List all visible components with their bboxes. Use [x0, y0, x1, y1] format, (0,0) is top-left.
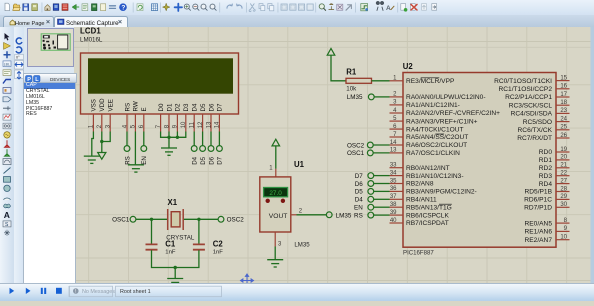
junction C2: [197, 217, 200, 220]
svg-text:RD6/P1C: RD6/P1C: [524, 196, 552, 203]
svg-text:D7: D7: [217, 103, 224, 111]
svg-text:17: 17: [560, 91, 567, 97]
cursor crosshair: [241, 274, 254, 287]
svg-text:D6: D6: [208, 103, 215, 111]
svg-text:D4: D4: [355, 196, 364, 203]
svg-text:RW: RW: [133, 101, 140, 111]
design explorer: [92, 4, 97, 11]
svg-text:RB2/AN8: RB2/AN8: [406, 180, 434, 187]
svg-text:EN: EN: [354, 204, 363, 211]
svg-text:D7: D7: [217, 156, 224, 164]
U2 pin 30 RD7/P1D: [524, 202, 569, 211]
U2 pin 29 RD6/P1C: [524, 194, 569, 203]
wire VEE: [102, 131, 110, 141]
svg-text:RB7/ICSPDAT: RB7/ICSPDAT: [406, 220, 449, 227]
svg-text:D1: D1: [166, 103, 173, 111]
power terminal down: [98, 152, 106, 159]
svg-text:D0: D0: [158, 103, 165, 111]
junction VDD/VEE: [100, 139, 103, 142]
junction D2: [176, 135, 179, 138]
svg-text:12: 12: [198, 120, 204, 127]
svg-text:RE1/AN6: RE1/AN6: [525, 228, 553, 235]
wire E pin: [143, 131, 145, 145]
svg-text:29: 29: [560, 194, 567, 200]
junction bottom rail: [174, 265, 177, 268]
svg-text:U2: U2: [403, 61, 414, 70]
svg-text:RA4/T0CKI/C1OUT: RA4/T0CKI/C1OUT: [406, 126, 464, 133]
U2 pin 33 RB0/AN12/INT: [390, 162, 450, 171]
new design: [5, 3, 10, 11]
status bar: [0, 283, 594, 301]
new sheet: [401, 4, 406, 11]
microcontroller U2: [403, 61, 556, 256]
U2 pin 6 RA4/T0CKI/C1OUT: [390, 123, 464, 132]
svg-text:LM016L: LM016L: [80, 36, 103, 43]
svg-text:D4: D4: [192, 156, 199, 164]
wire OSC1 to crystal: [136, 218, 167, 220]
overline MCLR: [421, 76, 440, 78]
wire rail to ground: [168, 137, 170, 147]
crystal X1: [166, 198, 195, 241]
new page: [101, 4, 106, 11]
schematic canvas: [74, 27, 594, 284]
svg-text:LBL: LBL: [4, 62, 10, 66]
svg-text:D5: D5: [200, 103, 207, 111]
svg-text:33: 33: [390, 162, 397, 168]
junction C1: [150, 217, 153, 220]
terminal OSC2: [218, 216, 224, 222]
svg-text:15: 15: [560, 75, 567, 81]
wire to ground: [174, 267, 176, 278]
ground: [161, 148, 177, 155]
svg-text:E: E: [141, 107, 148, 111]
home: [45, 5, 50, 11]
decompose: [346, 5, 351, 10]
svg-text:1nF: 1nF: [213, 249, 224, 255]
svg-text:RC0/T1OSO/T1CKI: RC0/T1OSO/T1CKI: [494, 77, 552, 84]
wire RS pin: [126, 131, 128, 145]
equals: [110, 6, 116, 9]
U2 pin 4 RA2/AN2/VREF-/CVREF/C2IN+: [390, 107, 501, 116]
terminal EN to U2: [354, 204, 389, 211]
svg-text:X1: X1: [168, 198, 178, 207]
svg-text:LM35: LM35: [294, 241, 310, 248]
svg-text:RC1/T1OSI/CCP2: RC1/T1OSI/CCP2: [499, 86, 553, 93]
U2 pin 36 RB3/AN9/PGM/C12IN2-: [390, 186, 477, 195]
svg-text:RA5/AN4/SS/C2OUT: RA5/AN4/SS/C2OUT: [406, 134, 468, 141]
svg-text:DEVICES: DEVICES: [50, 76, 70, 81]
device list: [23, 83, 76, 283]
rotate buttons column: [14, 27, 24, 284]
top toolbar: [0, 0, 594, 16]
svg-text:VOUT: VOUT: [269, 213, 288, 220]
svg-text:A: A: [4, 210, 10, 220]
svg-text:24: 24: [560, 116, 567, 122]
svg-text:RD1: RD1: [539, 157, 553, 164]
svg-text:D4: D4: [192, 103, 199, 111]
svg-text:26: 26: [560, 132, 567, 138]
wire RW to ground: [134, 131, 136, 164]
svg-text:14: 14: [390, 139, 397, 145]
svg-text:39: 39: [390, 209, 397, 215]
svg-text:25: 25: [560, 124, 567, 130]
wire U1 pin3 to ground: [274, 246, 276, 259]
svg-text:No Messages: No Messages: [82, 289, 115, 295]
U2 pin 26 RC7/RX/DT: [517, 132, 569, 141]
svg-text:RC5/SDO: RC5/SDO: [523, 118, 552, 125]
svg-text:RC7/RX/DT: RC7/RX/DT: [517, 135, 552, 142]
U2 pin 10 RE2/AN7: [525, 234, 570, 243]
terminal D4: [191, 145, 197, 151]
terminal D7: [217, 145, 223, 151]
LCD pin 1: [92, 114, 94, 132]
U2 pin 17 RC2/P1A/CCP1: [505, 91, 569, 100]
svg-text:RB4/AN11: RB4/AN11: [406, 196, 437, 203]
LCD pin 13: [210, 114, 212, 132]
origin: [163, 3, 170, 10]
svg-text:EN: EN: [141, 156, 148, 165]
svg-text:VEE: VEE: [108, 99, 115, 111]
save design: [23, 4, 29, 11]
svg-text:OSC1: OSC1: [347, 150, 365, 157]
svg-text:LCD1: LCD1: [80, 27, 101, 35]
3d view: [72, 4, 76, 9]
wire D6: [210, 131, 212, 145]
U2 pin 8 RE0/AN5: [525, 217, 570, 226]
U2 pin 18 RC3/SCK/SCL: [509, 100, 570, 109]
terminal D5 to U2: [355, 188, 390, 195]
overline SS: [435, 133, 444, 135]
terminal RS: [124, 145, 130, 151]
svg-text:RA0/AN0/ULPWU/C12IN0-: RA0/AN0/ULPWU/C12IN0-: [406, 94, 486, 101]
svg-text:16: 16: [560, 83, 567, 89]
terminal LM35 out: [326, 211, 332, 217]
svg-text:LM35: LM35: [347, 94, 363, 101]
U2 pin 7 RA5/AN4/SS/C2OUT: [390, 131, 469, 140]
svg-text:RA6/OSC2/CLKOUT: RA6/OSC2/CLKOUT: [406, 142, 467, 149]
svg-text:RA7/OSC1/CLKIN: RA7/OSC1/CLKIN: [406, 150, 460, 157]
LCD pin 6: [143, 114, 145, 132]
packaging tool: [337, 4, 343, 10]
svg-text:22: 22: [560, 170, 567, 176]
U2 pin 25 RC6/TX/CK: [518, 124, 570, 133]
svg-text:21: 21: [560, 162, 567, 168]
terminal D5: [200, 145, 206, 151]
schematic capture: [53, 4, 59, 11]
svg-text:RD3: RD3: [539, 172, 553, 179]
capacitor C1: [146, 219, 176, 255]
terminal D6 to U2: [355, 180, 390, 187]
U2 pin 14 RA6/OSC2/CLKOUT: [390, 139, 468, 148]
svg-text:18: 18: [560, 100, 567, 106]
U2 pin 21 RD2: [539, 162, 570, 171]
wire VDD down: [101, 131, 103, 152]
terminal RS to U2: [354, 212, 389, 219]
ground: [167, 278, 183, 285]
help: [119, 3, 127, 11]
svg-text:36: 36: [390, 186, 397, 192]
svg-text:RC2/P1A/CCP1: RC2/P1A/CCP1: [505, 94, 552, 101]
svg-text:Schematic Capture: Schematic Capture: [66, 19, 119, 26]
svg-text:27.0: 27.0: [269, 190, 282, 197]
wire R1 to U2 pin1: [372, 79, 390, 81]
wire autorouter: [361, 4, 368, 11]
terminal D6: [208, 145, 214, 151]
svg-text:23: 23: [560, 108, 567, 114]
LCD pin 12: [202, 114, 204, 132]
svg-text:PIC16F887: PIC16F887: [403, 249, 434, 256]
svg-text:RE0/AN5: RE0/AN5: [525, 220, 553, 227]
svg-text:20: 20: [560, 154, 567, 160]
svg-text:U1: U1: [294, 159, 305, 168]
U2 pin 38 RB5/AN13/T1G: [390, 202, 452, 211]
U2 pin 27 RD4: [539, 178, 570, 187]
svg-text:30: 30: [560, 202, 567, 208]
pick device: [319, 4, 324, 9]
svg-text:34: 34: [390, 170, 397, 176]
svg-text:RA1/AN1/C12IN1-: RA1/AN1/C12IN1-: [406, 102, 460, 109]
tab bar: [0, 15, 594, 27]
svg-text:37: 37: [390, 194, 397, 200]
U2 pin 13 RA7/OSC1/CLKIN: [390, 147, 461, 156]
U2 pin 15 RC0/T1OSO/T1CKI: [494, 75, 569, 84]
LCD pin 9: [176, 114, 178, 132]
svg-text:R1: R1: [346, 67, 357, 76]
svg-text:RE3/MCLR/VPP: RE3/MCLR/VPP: [406, 78, 455, 85]
svg-text:C1: C1: [165, 239, 176, 248]
LCD pin 11: [193, 114, 195, 132]
svg-text:38: 38: [390, 202, 397, 208]
svg-text:D6: D6: [355, 180, 364, 187]
svg-text:D5: D5: [355, 188, 364, 195]
svg-text:A: A: [386, 5, 391, 12]
svg-text:RA2/AN2/VREF-/CVREF/C2IN+: RA2/AN2/VREF-/CVREF/C2IN+: [406, 110, 500, 117]
wire crystal to OSC2: [184, 218, 218, 220]
terminal LM35 to U2: [347, 94, 390, 101]
svg-text:0°: 0°: [16, 55, 20, 59]
svg-text:RD0: RD0: [539, 149, 553, 156]
svg-text:19: 19: [560, 146, 567, 152]
svg-text:1nF: 1nF: [165, 249, 176, 255]
resistor R1: [346, 67, 372, 92]
svg-text:40: 40: [390, 217, 397, 223]
LCD pin 4: [126, 114, 128, 132]
U2 pin 24 RC5/SDO: [523, 116, 570, 125]
ground: [128, 164, 144, 171]
svg-text:RS: RS: [354, 212, 363, 219]
LCD pin 5: [134, 114, 136, 132]
exit: [432, 4, 437, 11]
U1 pin 1: [275, 168, 277, 176]
wire VSS to ground: [92, 131, 94, 155]
U2 pin 16 RC1/T1OSI/CCP2: [499, 83, 570, 92]
U2 pin 5 RA3/AN3/VREF+/C1IN+: [390, 115, 478, 124]
wire D0-D3 rail: [161, 131, 186, 137]
block ops (greyed): [281, 4, 313, 10]
svg-text:RB6/ICSPCLK: RB6/ICSPCLK: [406, 212, 449, 219]
svg-text:VDD: VDD: [99, 97, 106, 111]
U2 pin 35 RB2/AN8: [390, 178, 434, 187]
LCD pin 8: [168, 114, 170, 132]
grid toggle: [152, 4, 158, 11]
wire power to R1: [331, 55, 346, 81]
goto parent (greyed): [422, 4, 427, 11]
svg-text:RD2: RD2: [539, 165, 553, 172]
U2 pin 37 RB4/AN11: [390, 194, 437, 203]
svg-text:VSS: VSS: [91, 99, 98, 111]
LCD LCD1: [80, 26, 239, 114]
svg-text:11: 11: [190, 121, 196, 128]
sensor U1: [260, 159, 310, 248]
power terminal up: [272, 139, 280, 146]
LCD pin 7: [160, 114, 162, 132]
svg-text:RB5/AN13/T1G: RB5/AN13/T1G: [406, 204, 452, 211]
overline T1G: [439, 203, 452, 205]
svg-text:RS: RS: [124, 102, 131, 111]
import/export: [32, 4, 38, 11]
svg-text:28: 28: [560, 186, 567, 192]
U2 pin 40 RB7/ICSPDAT: [390, 217, 449, 226]
svg-text:10: 10: [181, 120, 187, 127]
pan: [175, 4, 182, 11]
svg-text:13: 13: [390, 147, 397, 153]
U2 pin 28 RD5/P1B: [525, 186, 570, 195]
LCD pin 2: [101, 114, 103, 132]
U2 pin 22 RD3: [539, 170, 570, 179]
wire D7: [218, 131, 220, 145]
U2 pin 20 RD1: [539, 154, 570, 163]
svg-text:RB3/AN9/PGM/C12IN2-: RB3/AN9/PGM/C12IN2-: [406, 188, 477, 195]
svg-text:RE2/AN7: RE2/AN7: [525, 236, 553, 243]
U2 pin 9 RE1/AN6: [525, 226, 570, 235]
terminal D7 to U2: [355, 172, 390, 179]
svg-text:27: 27: [560, 178, 567, 184]
U2 pin 1 RE3/MCLR/VPP: [390, 75, 455, 84]
svg-text:RS: RS: [124, 156, 131, 165]
junction D1: [167, 135, 170, 138]
svg-text:OSC1: OSC1: [112, 216, 130, 223]
svg-text:RD4: RD4: [539, 180, 553, 187]
open design: [13, 4, 19, 11]
U2 pin 39 RB6/ICSPCLK: [390, 209, 450, 218]
svg-text:RA3/AN3/VREF+/C1IN+: RA3/AN3/VREF+/C1IN+: [406, 118, 478, 125]
U1 pin 3: [274, 232, 276, 247]
U2 pin 2 RA0/AN0/ULPWU/C12IN0-: [390, 91, 486, 100]
U2 pin 34 RB1/AN10/C12IN3-: [390, 170, 464, 179]
svg-text:35: 35: [390, 178, 397, 184]
svg-text:RD7/P1D: RD7/P1D: [524, 204, 552, 211]
U2 pin 23 RC4/SDI/SDA: [511, 108, 570, 117]
make device: [329, 4, 334, 10]
LCD pin 14: [218, 114, 220, 132]
U2 pin 3 RA1/AN1/C12IN1-: [390, 99, 460, 108]
svg-text:C2: C2: [213, 239, 224, 248]
svg-text:D6: D6: [208, 156, 215, 164]
power terminal up R1: [327, 48, 335, 55]
preview window: [27, 28, 74, 67]
svg-text:LM35: LM35: [336, 212, 352, 219]
svg-text:Home Page: Home Page: [15, 20, 45, 26]
undo redo: [227, 4, 232, 8]
devices header: [23, 73, 77, 84]
svg-text:RC6/TX/CK: RC6/TX/CK: [518, 127, 553, 134]
wire U1 out: [297, 213, 327, 215]
svg-text:RC3/SCK/SCL: RC3/SCK/SCL: [509, 102, 553, 109]
terminal EN: [141, 145, 147, 151]
ground: [267, 259, 283, 266]
svg-text:?: ?: [121, 5, 125, 12]
svg-text:RD5/P1B: RD5/P1B: [525, 188, 553, 195]
bom: [82, 4, 88, 11]
wire C1 C2 bottom rail: [152, 250, 199, 267]
svg-text:D2: D2: [175, 103, 182, 111]
svg-text:13: 13: [206, 120, 212, 127]
svg-text:RB0/AN12/INT: RB0/AN12/INT: [406, 164, 450, 171]
cut copy paste (greyed): [249, 4, 255, 12]
wire D5: [202, 131, 204, 145]
svg-text:D7: D7: [355, 172, 364, 179]
svg-text:RC4/SDI/SDA: RC4/SDI/SDA: [511, 110, 553, 117]
wire D4: [193, 131, 195, 145]
ground: [84, 156, 100, 163]
svg-text:RB1/AN10/C12IN3-: RB1/AN10/C12IN3-: [406, 172, 464, 179]
capacitor C2: [193, 219, 223, 255]
LCD pin 3: [109, 114, 111, 132]
terminal D4 to U2: [355, 196, 390, 203]
terminal OSC1 to U2: [347, 150, 389, 157]
remove sheet: [410, 4, 415, 11]
wire power to U1: [275, 145, 277, 168]
search tag: [376, 1, 384, 5]
svg-text:D5: D5: [200, 156, 207, 164]
svg-text:OSC2: OSC2: [347, 142, 365, 149]
svg-text:Root sheet 1: Root sheet 1: [120, 289, 151, 295]
svg-text:14: 14: [215, 120, 221, 127]
U2 pin 19 RD0: [539, 146, 570, 155]
svg-text:!: !: [75, 289, 76, 295]
LCD pin 10: [185, 114, 187, 132]
pcb layout: [62, 4, 68, 11]
terminal OSC2 to U2: [347, 142, 389, 149]
zoom in / out / all / area: [184, 4, 216, 10]
svg-text:OSC2: OSC2: [227, 216, 245, 223]
svg-text:D3: D3: [183, 103, 190, 111]
left mode toolbar: [0, 27, 15, 284]
refresh display: [137, 4, 143, 11]
svg-text:10: 10: [560, 234, 567, 240]
U1 pin 2: [291, 213, 297, 215]
svg-text:10k: 10k: [346, 85, 357, 92]
